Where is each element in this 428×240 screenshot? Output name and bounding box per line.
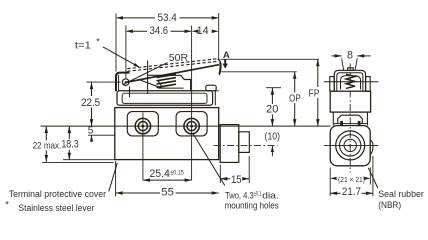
svg-text:OP: OP: [289, 93, 301, 104]
svg-text:18.3: 18.3: [61, 139, 78, 151]
svg-text:14: 14: [197, 25, 209, 37]
svg-text:20: 20: [266, 104, 278, 116]
svg-text:mounting holes: mounting holes: [225, 199, 279, 210]
svg-text:8: 8: [347, 50, 353, 62]
svg-text:53.4: 53.4: [157, 12, 176, 24]
svg-text:(10): (10): [265, 131, 281, 142]
svg-text:34.6: 34.6: [150, 25, 168, 37]
svg-text:25.4: 25.4: [149, 168, 170, 180]
svg-text:21.7: 21.7: [342, 186, 361, 198]
svg-text:*: *: [5, 198, 9, 209]
svg-text:15: 15: [231, 174, 242, 186]
svg-text:FP: FP: [309, 88, 320, 99]
svg-text:±0.15: ±0.15: [170, 170, 184, 177]
svg-text:Seal rubber: Seal rubber: [378, 189, 424, 200]
svg-text:Terminal protective cover: Terminal protective cover: [9, 189, 107, 200]
svg-text:±0.1: ±0.1: [254, 191, 262, 198]
svg-text:t=1: t=1: [75, 41, 91, 52]
svg-text:55: 55: [161, 187, 174, 199]
svg-text:22.5: 22.5: [81, 97, 100, 109]
svg-text:50R: 50R: [169, 53, 188, 64]
svg-text:5: 5: [88, 125, 94, 136]
svg-text:22 max.: 22 max.: [33, 140, 62, 151]
svg-text:*: *: [96, 37, 100, 47]
svg-text:(NBR): (NBR): [378, 200, 401, 211]
svg-text:(21 × 21): (21 × 21): [338, 175, 365, 184]
svg-text:Stainless steel lever: Stainless steel lever: [18, 203, 95, 214]
